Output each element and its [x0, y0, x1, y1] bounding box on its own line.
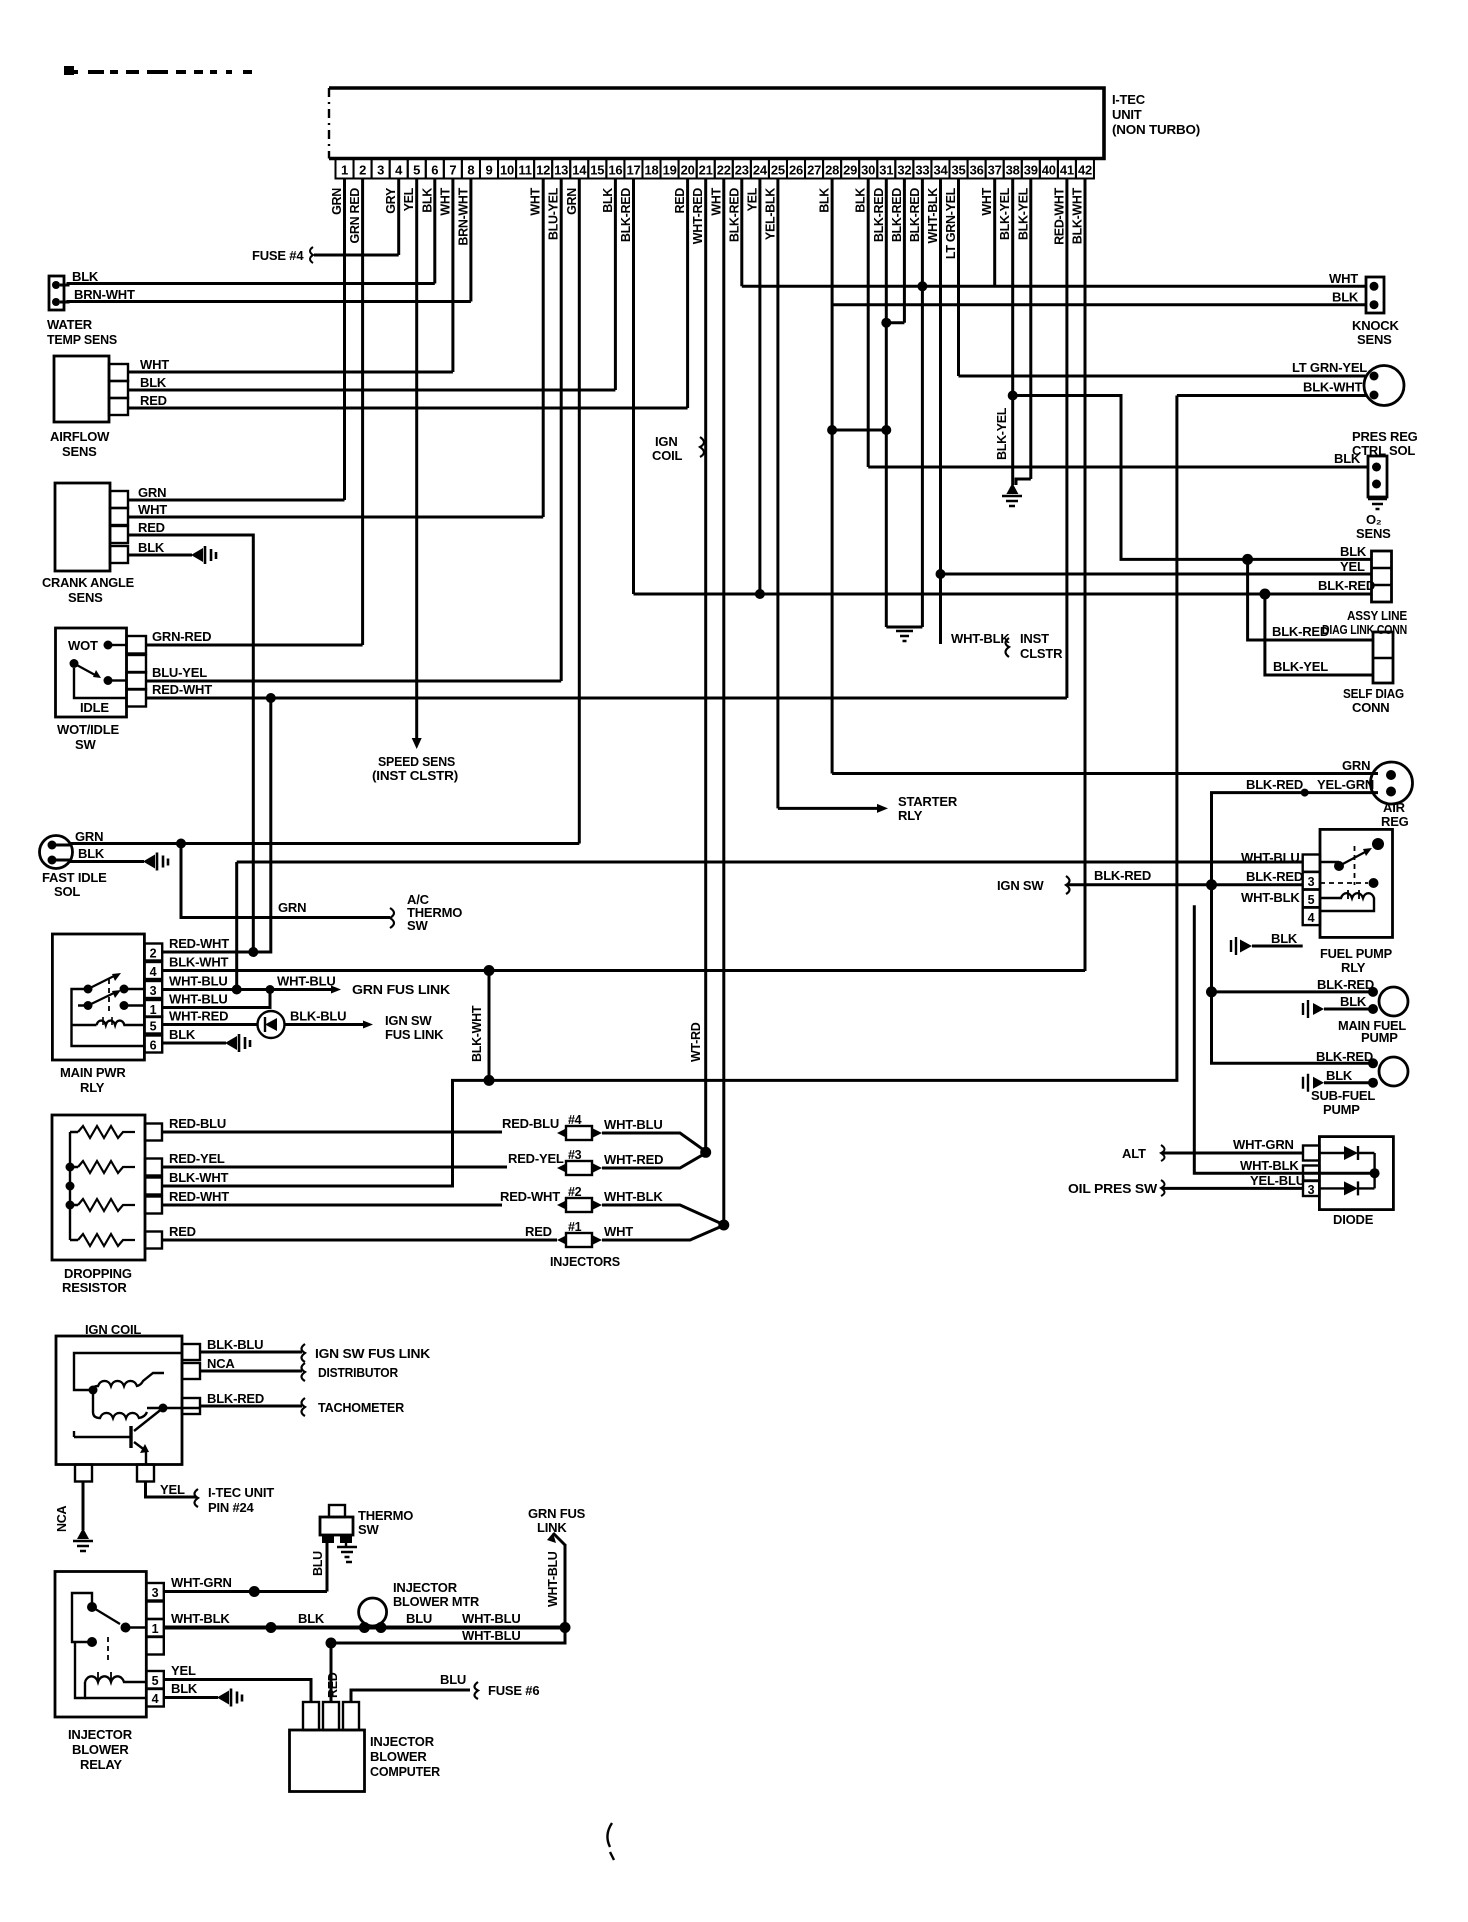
- wire BLU fuse 6: [351, 1690, 470, 1702]
- wire from pin 31 (BLK-RED): [885, 179, 888, 628]
- wire from pin 24 (YEL): [758, 179, 761, 595]
- svg-text:SPEED SENS: SPEED SENS: [378, 754, 455, 769]
- svg-text:BLOWER: BLOWER: [370, 1749, 427, 1764]
- wire BLK-WHT dropping resistor row to fuel pump rly 5: [162, 396, 1177, 1187]
- scan artifact dashes top-left: [64, 70, 78, 74]
- junction WOT red-wht branch: [266, 693, 276, 703]
- svg-text:BLK-YEL: BLK-YEL: [995, 407, 1009, 460]
- svg-text:BLK-RED: BLK-RED: [727, 188, 741, 242]
- wire from pin 20 (RED): [686, 179, 689, 409]
- svg-text:WHT-BLK: WHT-BLK: [1241, 890, 1300, 905]
- svg-text:WHT: WHT: [1329, 271, 1358, 286]
- wire O2 sens BLK row pin30: [868, 466, 1368, 469]
- svg-text:WHT-BLU: WHT-BLU: [546, 1551, 560, 1607]
- svg-text:BLK: BLK: [1340, 544, 1367, 559]
- WOT/IDLE switch box: [56, 628, 127, 717]
- svg-text:SENS: SENS: [1356, 526, 1391, 541]
- svg-text:5: 5: [1308, 893, 1315, 907]
- svg-text:WHT: WHT: [138, 502, 167, 517]
- svg-text:BLK: BLK: [1334, 451, 1361, 466]
- wire pin38 branch to assy line conn: [1012, 396, 1371, 560]
- svg-text:UNIT: UNIT: [1112, 107, 1142, 122]
- svg-text:20: 20: [681, 163, 695, 178]
- junction ign sw row: [1206, 879, 1217, 890]
- svg-text:4: 4: [152, 1692, 159, 1706]
- svg-text:GRN: GRN: [138, 485, 166, 500]
- ign coil internals: [74, 1353, 182, 1390]
- assy line diag link conn: [1372, 551, 1392, 602]
- wire BLK main fuel pump ground: [1324, 1008, 1373, 1011]
- diode 1: [1319, 1152, 1374, 1154]
- ground crank angle sens: [191, 548, 203, 562]
- svg-text:WOT: WOT: [68, 638, 98, 653]
- svg-text:16: 16: [608, 163, 622, 178]
- junction fast idle GRN branch: [176, 839, 186, 849]
- svg-text:BLK-WHT: BLK-WHT: [169, 955, 229, 970]
- svg-text:BLK-RED: BLK-RED: [1094, 868, 1151, 883]
- svg-text:31: 31: [879, 163, 893, 178]
- main fuel pump circle: [1379, 987, 1408, 1016]
- svg-text:WHT: WHT: [140, 357, 169, 372]
- wire NCA stub to ground: [82, 1482, 85, 1531]
- ground pin38/39: [1006, 483, 1018, 494]
- svg-text:WHT-BLK: WHT-BLK: [171, 1611, 230, 1626]
- svg-text:SW: SW: [407, 918, 428, 933]
- svg-text:3: 3: [152, 1586, 159, 1600]
- svg-text:8: 8: [467, 163, 474, 178]
- svg-text:BLK-RED: BLK-RED: [1318, 578, 1375, 593]
- svg-text:INJECTOR: INJECTOR: [68, 1727, 133, 1742]
- svg-text:RED: RED: [140, 393, 167, 408]
- fuel pump rly box: [1320, 829, 1393, 937]
- svg-text:15: 15: [590, 163, 604, 178]
- svg-text:SW: SW: [75, 737, 96, 752]
- svg-text:29: 29: [843, 163, 857, 178]
- svg-text:WOT/IDLE: WOT/IDLE: [57, 722, 119, 737]
- injector #4: [557, 1128, 567, 1138]
- svg-text:BLK-RED: BLK-RED: [619, 188, 633, 242]
- svg-text:BLK-RED: BLK-RED: [1246, 869, 1303, 884]
- wire RED crank down to main pwr rly: [128, 535, 253, 952]
- svg-text:BLK-RED: BLK-RED: [872, 188, 886, 242]
- svg-text:22: 22: [717, 163, 731, 178]
- svg-text:RELAY: RELAY: [80, 1757, 122, 1772]
- svg-text:BLK: BLK: [1326, 1068, 1353, 1083]
- wire GRN pin28 to air reg: [832, 772, 1378, 775]
- svg-text:WATER: WATER: [47, 317, 93, 332]
- wire BLK water temp to pin 6: [60, 284, 435, 286]
- svg-text:REG: REG: [1381, 814, 1409, 829]
- svg-text:BLK-RED: BLK-RED: [1272, 624, 1329, 639]
- wire BLK-RED main fuel pump: [1212, 990, 1374, 993]
- svg-text:6: 6: [431, 163, 438, 178]
- wire from pin 14 (GRN): [578, 179, 581, 844]
- wire BLU-YEL to pin 13: [146, 680, 561, 683]
- svg-text:BLK-BLU: BLK-BLU: [290, 1009, 346, 1024]
- wire long WHT-BLU row to fuel pump rly: [237, 861, 1303, 864]
- svg-text:42: 42: [1078, 163, 1092, 178]
- wire RED-WHT to injector #2: [162, 1204, 502, 1207]
- I-TEC unit box: [329, 88, 1104, 159]
- wire from pin 22 (WHT): [722, 179, 725, 1226]
- svg-text:25: 25: [771, 163, 785, 178]
- svg-text:BLK: BLK: [140, 375, 167, 390]
- ground injector blower relay: [217, 1691, 229, 1705]
- wire BRN-WHT water temp to pin 8: [60, 300, 471, 304]
- svg-text:NCA: NCA: [55, 1506, 69, 1532]
- svg-text:27: 27: [807, 163, 821, 178]
- wire BLK sub fuel pump ground: [1324, 1081, 1373, 1084]
- fusible link symbol row 5: [258, 1011, 285, 1038]
- svg-text:BLOWER: BLOWER: [72, 1742, 129, 1757]
- svg-text:BLK-WHT: BLK-WHT: [470, 1005, 484, 1062]
- svg-text:MAIN PWR: MAIN PWR: [60, 1065, 126, 1080]
- svg-text:4: 4: [150, 965, 157, 979]
- wire from pin 33 (BLK-RED): [921, 179, 924, 628]
- wire BLK-BLU ign coil: [200, 1351, 302, 1354]
- svg-text:RED: RED: [673, 188, 687, 214]
- diode bus: [1373, 1153, 1375, 1188]
- svg-text:THERMO: THERMO: [358, 1508, 413, 1523]
- svg-text:BLK: BLK: [138, 540, 165, 555]
- svg-text:5: 5: [413, 163, 420, 178]
- svg-text:BLK: BLK: [298, 1611, 325, 1626]
- wire WHT-RED injector 3 to pin21: [602, 1152, 707, 1168]
- svg-text:LT GRN-YEL: LT GRN-YEL: [1292, 360, 1367, 375]
- resistor elements: [69, 1132, 71, 1240]
- svg-text:BLK: BLK: [1340, 994, 1367, 1009]
- wire RED-WHT row 2: [162, 951, 271, 954]
- svg-text:TACHOMETER: TACHOMETER: [318, 1400, 405, 1415]
- svg-text:SENS: SENS: [1357, 332, 1392, 347]
- svg-text:WT-RD: WT-RD: [689, 1022, 703, 1062]
- svg-text:WHT-GRN: WHT-GRN: [1233, 1137, 1294, 1152]
- injector #1: [557, 1235, 567, 1245]
- svg-text:WHT: WHT: [980, 187, 994, 215]
- svg-text:FUSE #4: FUSE #4: [252, 248, 304, 263]
- svg-text:2: 2: [150, 947, 157, 961]
- svg-text:WHT-BLK: WHT-BLK: [951, 631, 1010, 646]
- wire from pin 1 (GRN): [343, 179, 346, 501]
- thermo sw: [329, 1505, 345, 1517]
- O2 sens connector: [1368, 456, 1387, 497]
- svg-text:STARTER: STARTER: [898, 794, 958, 809]
- diode 2: [1319, 1187, 1374, 1189]
- svg-text:39: 39: [1024, 163, 1038, 178]
- injector blower computer legs: [303, 1702, 319, 1730]
- svg-text:PUMP: PUMP: [1361, 1030, 1398, 1045]
- svg-text:28: 28: [825, 163, 839, 178]
- wire from pin 32 (BLK-RED): [903, 179, 906, 323]
- svg-text:GRN: GRN: [330, 188, 344, 215]
- crank angle sens box: [55, 483, 110, 571]
- svg-text:IGN SW: IGN SW: [385, 1013, 432, 1028]
- wire RED airflow to pin 20: [128, 407, 688, 410]
- svg-text:I-TEC: I-TEC: [1112, 92, 1146, 107]
- svg-text:RLY: RLY: [1341, 960, 1366, 975]
- svg-text:RED: RED: [138, 520, 165, 535]
- pres reg ctrl sol: [1364, 366, 1404, 406]
- diode box: [1319, 1137, 1393, 1210]
- svg-text:3: 3: [377, 163, 384, 178]
- self diag conn: [1373, 632, 1393, 683]
- airflow sens box: [54, 356, 109, 422]
- svg-text:LINK: LINK: [537, 1520, 567, 1535]
- svg-text:GRN: GRN: [565, 188, 579, 215]
- svg-text:DIODE: DIODE: [1333, 1212, 1374, 1227]
- svg-text:IGN: IGN: [655, 434, 678, 449]
- svg-text:COIL: COIL: [652, 448, 683, 463]
- svg-text:ASSY LINE: ASSY LINE: [1347, 608, 1407, 623]
- svg-text:YEL: YEL: [745, 187, 759, 211]
- svg-text:34: 34: [933, 163, 948, 178]
- wire NCA ign coil: [200, 1370, 302, 1373]
- svg-text:3: 3: [1308, 1183, 1315, 1197]
- svg-text:BLK-BLU: BLK-BLU: [207, 1337, 263, 1352]
- svg-text:BLU: BLU: [311, 1551, 325, 1576]
- wire from pin 6 (BLK): [433, 179, 436, 284]
- svg-text:LT GRN-YEL: LT GRN-YEL: [944, 187, 958, 259]
- svg-text:40: 40: [1042, 163, 1056, 178]
- svg-text:5: 5: [152, 1674, 159, 1688]
- svg-text:COMPUTER: COMPUTER: [370, 1764, 441, 1779]
- svg-text:4: 4: [1308, 911, 1315, 925]
- svg-text:WHT-BLU: WHT-BLU: [462, 1611, 521, 1626]
- svg-text:PUMP: PUMP: [1323, 1102, 1360, 1117]
- svg-text:INJECTOR: INJECTOR: [370, 1734, 435, 1749]
- svg-text:33: 33: [915, 163, 929, 178]
- svg-text:WHT-BLK: WHT-BLK: [1240, 1158, 1299, 1173]
- wire from pin 12 (WHT): [542, 179, 545, 518]
- wire WHT-BLU row 1 joins row 3: [162, 990, 270, 1008]
- svg-text:#4: #4: [568, 1113, 582, 1127]
- svg-text:GRN: GRN: [75, 829, 103, 844]
- wire BLK-RED sub fuel pump: [1368, 1058, 1378, 1068]
- svg-text:RED-WHT: RED-WHT: [169, 1189, 229, 1204]
- svg-text:RED-WHT: RED-WHT: [1052, 187, 1066, 245]
- wire knock sens WHT row: [742, 285, 1366, 288]
- injector blower relay internals: [87, 1602, 97, 1612]
- svg-text:1: 1: [150, 1003, 157, 1017]
- svg-text:18: 18: [644, 163, 658, 178]
- wire to self diag BLK-RED: [1248, 559, 1373, 640]
- wire from pin 39 (BLK-YEL): [1029, 179, 1032, 480]
- wire BLK-RED row pin17 to assy conn: [634, 593, 1372, 596]
- svg-text:O₂: O₂: [1366, 512, 1382, 527]
- wire from pin 2 (GRN RED): [361, 179, 364, 646]
- svg-text:RED-WHT: RED-WHT: [500, 1189, 560, 1204]
- wire YEL row 5: [164, 1680, 311, 1703]
- wire GRN crank to pin 1: [128, 499, 345, 502]
- svg-text:GRN-RED: GRN-RED: [152, 629, 211, 644]
- svg-text:BLK-YEL: BLK-YEL: [1016, 187, 1030, 240]
- svg-text:INJECTORS: INJECTORS: [550, 1254, 621, 1269]
- wire LT GRN-YEL pin35 to pres reg: [959, 375, 1367, 378]
- svg-text:37: 37: [988, 163, 1002, 178]
- wire from pin 16 (BLK): [614, 179, 617, 391]
- svg-text:WHT-BLU: WHT-BLU: [169, 992, 228, 1007]
- svg-text:PRES REG: PRES REG: [1352, 429, 1418, 444]
- wire x489 relay row4 down to 1079 row: [488, 971, 491, 1081]
- ground fast idle sol: [143, 855, 155, 869]
- wire WHT injector 1 to pin22: [602, 1225, 725, 1240]
- svg-text:RED-WHT: RED-WHT: [152, 682, 212, 697]
- svg-text:#3: #3: [568, 1148, 582, 1162]
- svg-text:IDLE: IDLE: [80, 700, 109, 715]
- svg-text:GRN: GRN: [278, 900, 306, 915]
- wire RED-YEL to injector #3: [162, 1166, 507, 1169]
- svg-text:ALT: ALT: [1122, 1146, 1146, 1161]
- injector blower relay box: [55, 1572, 146, 1718]
- svg-text:YEL: YEL: [171, 1663, 196, 1678]
- wire from pin 21 (WHT-RED): [704, 179, 707, 1153]
- svg-text:RESISTOR: RESISTOR: [62, 1280, 127, 1295]
- svg-text:WHT: WHT: [604, 1224, 633, 1239]
- svg-text:BLK-RED: BLK-RED: [1246, 777, 1303, 792]
- wire from pin 30 (BLK): [867, 179, 870, 468]
- svg-text:GRN FUS LINK: GRN FUS LINK: [352, 982, 451, 997]
- svg-text:41: 41: [1060, 163, 1074, 178]
- wire RED to injector #1: [162, 1239, 557, 1242]
- svg-text:RED: RED: [326, 1672, 340, 1698]
- svg-text:KNOCK: KNOCK: [1352, 318, 1399, 333]
- wire to self diag BLK-YEL: [1265, 594, 1373, 675]
- svg-text:RED-BLU: RED-BLU: [169, 1116, 226, 1131]
- svg-text:RED: RED: [169, 1224, 196, 1239]
- junction injectors 3/4 at pin 21: [700, 1147, 711, 1158]
- wire RED-BLU to injector #4: [162, 1131, 502, 1134]
- wire BLK fuel pump rly ground: [1252, 945, 1303, 948]
- wire RED-WHT to pin 41: [146, 697, 1067, 700]
- svg-text:3: 3: [1308, 875, 1315, 889]
- svg-text:I-TEC UNIT: I-TEC UNIT: [208, 1485, 274, 1500]
- dropping resistor box: [52, 1115, 145, 1260]
- wire pin28 row to pin31: [832, 429, 886, 432]
- svg-text:FUEL PUMP: FUEL PUMP: [1320, 946, 1393, 961]
- svg-text:BLK: BLK: [420, 188, 434, 213]
- svg-text:WHT-RED: WHT-RED: [169, 1009, 228, 1024]
- wire WHT-BLK diode row: [1194, 905, 1374, 1173]
- svg-text:PIN #24: PIN #24: [208, 1500, 255, 1515]
- wire WHT-BLK injector 2 to pin22: [602, 1205, 725, 1225]
- wire from pin 37 (WHT): [993, 179, 996, 287]
- svg-text:BLK-RED: BLK-RED: [1316, 1049, 1373, 1064]
- wire from pin 5 (YEL): [415, 179, 418, 739]
- svg-text:7: 7: [449, 163, 456, 178]
- wire pin39 jog to ground: [1016, 479, 1031, 485]
- ground NCA: [77, 1528, 89, 1539]
- svg-text:BRN-WHT: BRN-WHT: [456, 187, 470, 245]
- svg-text:BLK-RED: BLK-RED: [207, 1391, 264, 1406]
- svg-text:GRN: GRN: [1342, 758, 1370, 773]
- svg-text:10: 10: [500, 163, 514, 178]
- svg-text:GRN RED: GRN RED: [348, 188, 362, 244]
- wire YEL row pin34 to assy conn: [941, 573, 1372, 576]
- svg-text:32: 32: [897, 163, 911, 178]
- fuel pump rly internals: [1334, 861, 1344, 871]
- wire WHT crank to pin 12: [128, 516, 543, 519]
- svg-text:WHT-BLU: WHT-BLU: [277, 974, 336, 989]
- svg-text:BLK: BLK: [72, 269, 99, 284]
- air reg: [1371, 762, 1413, 804]
- svg-text:NCA: NCA: [207, 1356, 235, 1371]
- wire BLK crank to ground: [128, 554, 192, 557]
- svg-text:SW: SW: [358, 1522, 379, 1537]
- svg-text:RED-BLU: RED-BLU: [502, 1116, 559, 1131]
- svg-text:GRN FUS: GRN FUS: [528, 1506, 586, 1521]
- wire BLK-WHT pres reg segment: [1177, 394, 1366, 397]
- svg-text:1: 1: [341, 163, 348, 178]
- wire from pin 17 (BLK-RED): [632, 179, 635, 595]
- wire GRN fast idle to pin 14: [56, 844, 579, 846]
- svg-text:YEL-GRN: YEL-GRN: [1317, 777, 1374, 792]
- wire YEL-GRN branch to air reg: [1212, 793, 1379, 885]
- injector #2: [557, 1200, 567, 1210]
- svg-text:DISTRIBUTOR: DISTRIBUTOR: [318, 1365, 399, 1380]
- wire BLU thermo leg down: [326, 1543, 329, 1592]
- svg-text:YEL: YEL: [160, 1482, 185, 1497]
- svg-text:WHT: WHT: [709, 187, 723, 215]
- svg-text:BLK-YEL: BLK-YEL: [1273, 659, 1328, 674]
- svg-text:SENS: SENS: [68, 590, 103, 605]
- svg-text:TEMP SENS: TEMP SENS: [47, 332, 118, 347]
- svg-text:CONN: CONN: [1352, 700, 1389, 715]
- svg-text:BLU: BLU: [406, 1611, 432, 1626]
- ground bar pins 31/33: [886, 626, 922, 629]
- wire BLK-WHT row 4 to pin 42: [162, 969, 1085, 972]
- svg-text:WHT-BLK: WHT-BLK: [926, 188, 940, 244]
- fuse #4 wire: [314, 254, 399, 257]
- svg-text:IGN SW FUS LINK: IGN SW FUS LINK: [315, 1346, 431, 1361]
- svg-text:38: 38: [1006, 163, 1020, 178]
- wire ALT WHT-GRN: [1163, 1152, 1303, 1155]
- svg-text:YEL-BLK: YEL-BLK: [763, 188, 777, 240]
- wire from pin 41 (RED-WHT): [1065, 179, 1068, 699]
- water temp sens connector: [49, 276, 64, 310]
- svg-text:WHT-BLU: WHT-BLU: [1241, 850, 1300, 865]
- svg-text:BLK: BLK: [818, 188, 832, 213]
- svg-text:OIL PRES SW: OIL PRES SW: [1068, 1181, 1158, 1196]
- wire BLK fast idle to ground: [56, 860, 144, 862]
- svg-text:BLK: BLK: [171, 1681, 198, 1696]
- wire branch WHT-BLU up to long row: [235, 862, 238, 990]
- svg-text:SENS: SENS: [62, 444, 97, 459]
- wire YEL ign coil to I-TEC pin 24: [146, 1482, 197, 1498]
- svg-text:35: 35: [951, 163, 965, 178]
- svg-text:FUSE #6: FUSE #6: [488, 1683, 539, 1698]
- wire BLK row 6 to ground: [162, 1042, 226, 1045]
- svg-text:RED: RED: [525, 1224, 552, 1239]
- svg-text:GRY: GRY: [384, 187, 398, 214]
- svg-text:RED-YEL: RED-YEL: [508, 1151, 564, 1166]
- svg-text:RED-YEL: RED-YEL: [169, 1151, 225, 1166]
- junction BLK-WHT x489: [484, 965, 495, 976]
- svg-text:1: 1: [152, 1622, 159, 1636]
- svg-text:BLK-YEL: BLK-YEL: [998, 187, 1012, 240]
- svg-text:CLSTR: CLSTR: [1020, 646, 1063, 661]
- svg-text:CRANK ANGLE: CRANK ANGLE: [42, 575, 135, 590]
- svg-text:RLY: RLY: [80, 1080, 105, 1095]
- wire starter rly pin25: [778, 807, 878, 810]
- svg-text:(INST CLSTR): (INST CLSTR): [372, 768, 458, 783]
- ground main pwr rly: [225, 1036, 237, 1050]
- injector blower mtr: [359, 1598, 387, 1626]
- svg-text:4: 4: [395, 163, 403, 178]
- svg-text:(NON TURBO): (NON TURBO): [1112, 122, 1200, 137]
- wire from pin 38 (BLK-YEL): [1011, 179, 1014, 486]
- main pwr rly internals: [84, 985, 93, 994]
- wire from pin 13 (BLU-YEL): [560, 179, 563, 682]
